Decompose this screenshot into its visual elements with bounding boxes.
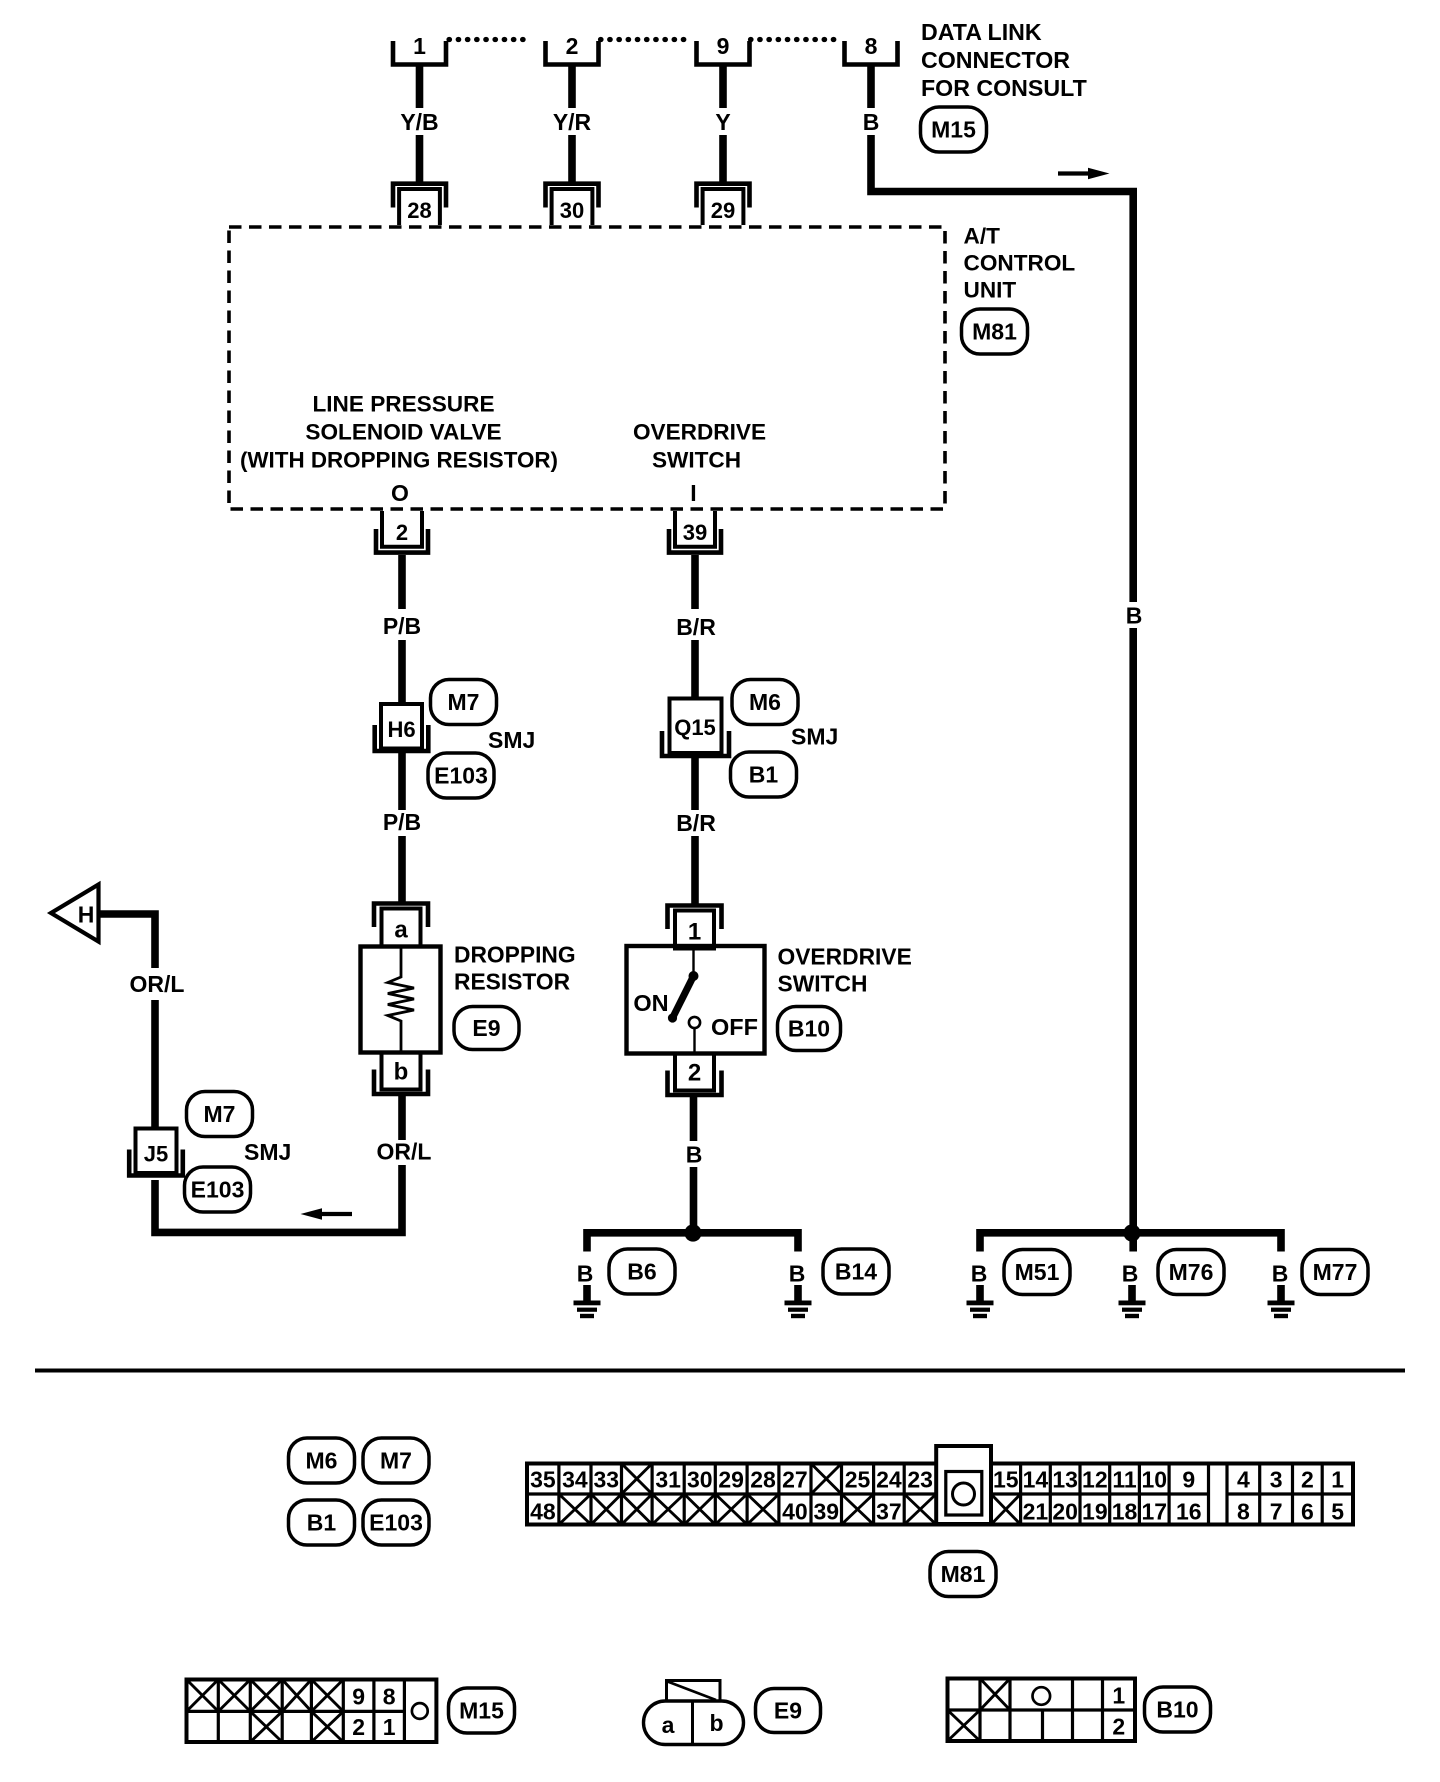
connector pin 9 of data link connector M15 bbox=[697, 33, 750, 65]
svg-text:2: 2 bbox=[566, 33, 579, 59]
connector ref M6 (legend) bbox=[289, 1438, 355, 1483]
connector face E9 bbox=[644, 1681, 744, 1745]
connector ref B14 bbox=[823, 1249, 889, 1294]
wire SMJ Q15 to B/R label bbox=[691, 758, 699, 810]
svg-text:Y/B: Y/B bbox=[400, 109, 438, 135]
svg-text:9: 9 bbox=[717, 33, 730, 59]
svg-text:8: 8 bbox=[1237, 1499, 1250, 1525]
svg-text:27: 27 bbox=[782, 1467, 808, 1493]
ground symbol M77 bbox=[1268, 1285, 1295, 1318]
text UNIT bbox=[964, 278, 1017, 303]
svg-text:UNIT: UNIT bbox=[964, 278, 1017, 303]
connector ref M7 (SMJ lower) bbox=[187, 1092, 253, 1137]
wire P/B to dropping resistor bbox=[398, 836, 406, 902]
svg-text:OVERDRIVE: OVERDRIVE bbox=[633, 420, 766, 445]
svg-text:P/B: P/B bbox=[383, 809, 421, 835]
wire label OR/L (left) bbox=[130, 971, 185, 997]
svg-text:CONTROL: CONTROL bbox=[964, 251, 1076, 276]
svg-text:1: 1 bbox=[688, 919, 701, 946]
connector ref E103 (legend) bbox=[363, 1500, 429, 1545]
svg-text:34: 34 bbox=[562, 1467, 588, 1493]
svg-text:B: B bbox=[1126, 603, 1143, 629]
svg-text:3: 3 bbox=[1270, 1467, 1283, 1493]
svg-text:H: H bbox=[78, 902, 95, 928]
svg-text:M6: M6 bbox=[749, 689, 781, 715]
svg-text:13: 13 bbox=[1052, 1467, 1078, 1493]
connector ref B6 bbox=[609, 1249, 675, 1294]
svg-text:B: B bbox=[1272, 1261, 1289, 1287]
svg-text:B/R: B/R bbox=[676, 614, 716, 640]
text SOLENOID VALVE bbox=[305, 420, 501, 445]
wire label B (pin 8) bbox=[863, 109, 880, 135]
svg-text:a: a bbox=[662, 1712, 675, 1738]
svg-text:37: 37 bbox=[876, 1499, 902, 1525]
svg-text:RESISTOR: RESISTOR bbox=[454, 969, 570, 995]
svg-text:8: 8 bbox=[865, 33, 878, 59]
dropping resistor E9 bbox=[361, 947, 441, 1053]
svg-text:4: 4 bbox=[1237, 1467, 1250, 1493]
svg-text:39: 39 bbox=[683, 520, 707, 545]
text DROPPING bbox=[454, 942, 576, 968]
wire pin8 to right bus bbox=[871, 135, 1133, 602]
wire B/R to SMJ Q15 bbox=[691, 640, 699, 698]
svg-text:ON: ON bbox=[633, 990, 668, 1016]
text OVERDRIVE bbox=[778, 944, 912, 970]
svg-text:1: 1 bbox=[383, 1714, 396, 1740]
svg-text:B: B bbox=[1122, 1261, 1139, 1287]
svg-text:30: 30 bbox=[687, 1467, 713, 1493]
svg-text:16: 16 bbox=[1176, 1499, 1202, 1525]
ground stub M76 bbox=[1129, 1233, 1137, 1252]
dropping resistor pin a bbox=[374, 904, 428, 947]
connector face M15 pin grid bbox=[187, 1680, 437, 1743]
svg-text:17: 17 bbox=[1141, 1499, 1167, 1525]
connector ref E9 (legend) bbox=[756, 1689, 821, 1733]
wire label Y bbox=[715, 109, 730, 135]
svg-text:B14: B14 bbox=[835, 1259, 877, 1285]
svg-text:10: 10 bbox=[1141, 1467, 1167, 1493]
svg-text:OR/L: OR/L bbox=[377, 1139, 432, 1165]
text LINE PRESSURE bbox=[312, 392, 494, 417]
overdrive switch pin 2 bbox=[668, 1054, 722, 1096]
wire SMJ H6 to P/B label bbox=[398, 751, 406, 810]
svg-text:12: 12 bbox=[1082, 1467, 1108, 1493]
wire J5 to OR/L label bbox=[151, 1000, 159, 1129]
svg-text:21: 21 bbox=[1023, 1499, 1049, 1525]
svg-text:20: 20 bbox=[1052, 1499, 1078, 1525]
flow arrow left bbox=[301, 1208, 353, 1219]
text SMJ (left) bbox=[488, 727, 535, 753]
svg-text:B1: B1 bbox=[307, 1510, 337, 1536]
svg-text:31: 31 bbox=[655, 1467, 681, 1493]
text CONNECTOR bbox=[921, 47, 1070, 73]
svg-text:B: B bbox=[577, 1261, 594, 1287]
svg-text:(WITH DROPPING RESISTOR): (WITH DROPPING RESISTOR) bbox=[240, 448, 558, 473]
svg-text:O: O bbox=[391, 480, 409, 506]
ground bus wire B6-B14 bbox=[587, 1233, 798, 1252]
connector pin 1 of data link connector M15 bbox=[393, 33, 446, 65]
svg-text:E103: E103 bbox=[434, 763, 488, 789]
svg-text:P/B: P/B bbox=[383, 613, 421, 639]
overdrive switch B10 bbox=[627, 946, 765, 1054]
svg-text:SOLENOID VALVE: SOLENOID VALVE bbox=[305, 420, 501, 445]
svg-text:B: B bbox=[686, 1142, 703, 1168]
svg-text:OR/L: OR/L bbox=[130, 971, 185, 997]
svg-text:29: 29 bbox=[711, 198, 735, 223]
svg-text:14: 14 bbox=[1023, 1467, 1049, 1493]
connector face B10 pin grid bbox=[948, 1679, 1136, 1742]
svg-text:30: 30 bbox=[560, 198, 584, 223]
SMJ connector Q15 bbox=[662, 699, 729, 757]
horizontal separator line bbox=[35, 1369, 1405, 1373]
svg-text:25: 25 bbox=[845, 1467, 871, 1493]
svg-text:M51: M51 bbox=[1015, 1259, 1060, 1285]
svg-text:A/T: A/T bbox=[964, 224, 1001, 249]
connector face M81 pin grid bbox=[527, 1446, 1353, 1525]
connector ref M15 (legend) bbox=[449, 1688, 515, 1733]
svg-text:15: 15 bbox=[993, 1467, 1019, 1493]
wire right bus lower segment bbox=[1129, 628, 1137, 1233]
svg-text:M77: M77 bbox=[1313, 1259, 1358, 1285]
svg-text:SWITCH: SWITCH bbox=[778, 971, 868, 997]
text DATA LINK bbox=[921, 19, 1042, 45]
svg-text:M6: M6 bbox=[306, 1448, 338, 1474]
svg-text:2: 2 bbox=[1301, 1467, 1314, 1493]
svg-text:Y: Y bbox=[715, 109, 730, 135]
wire OR/L down-left to J5 bbox=[155, 1165, 402, 1232]
svg-text:40: 40 bbox=[782, 1499, 808, 1525]
svg-text:M81: M81 bbox=[941, 1561, 986, 1587]
ground bus wire M51-M77 bbox=[980, 1233, 1281, 1252]
svg-text:1: 1 bbox=[1331, 1467, 1344, 1493]
connector ref M81 (A/T control unit) bbox=[962, 309, 1028, 354]
connector ref M7 (SMJ upper) bbox=[431, 680, 497, 725]
svg-text:Q15: Q15 bbox=[674, 715, 716, 740]
wire label P/B (upper) bbox=[383, 613, 421, 639]
wire B to ground junction bbox=[690, 1167, 698, 1233]
connector ref B10 (overdrive switch) bbox=[778, 1007, 841, 1051]
connector ref E103 (SMJ upper) bbox=[428, 753, 494, 798]
svg-text:OVERDRIVE: OVERDRIVE bbox=[778, 944, 912, 970]
wire label B (ground M77) bbox=[1272, 1261, 1289, 1287]
page connector H (to sheet H) bbox=[51, 885, 99, 942]
wire pin1 lower segment bbox=[416, 135, 424, 184]
dropping resistor pin b bbox=[374, 1053, 428, 1095]
svg-text:11: 11 bbox=[1112, 1467, 1137, 1493]
svg-text:CONNECTOR: CONNECTOR bbox=[921, 47, 1070, 73]
connector ref B1 (SMJ upper) bbox=[731, 752, 797, 797]
svg-text:29: 29 bbox=[718, 1467, 744, 1493]
svg-text:2: 2 bbox=[1112, 1714, 1125, 1740]
connector ref E103 (SMJ lower) bbox=[185, 1167, 251, 1212]
SMJ connector H6 bbox=[375, 704, 429, 751]
svg-text:b: b bbox=[709, 1710, 723, 1736]
svg-text:28: 28 bbox=[750, 1467, 776, 1493]
connector ref M15 (data link connector) bbox=[921, 107, 987, 152]
connector pin 28 of A/T control unit bbox=[393, 184, 446, 225]
wire label B/R (lower) bbox=[676, 810, 716, 836]
svg-text:8: 8 bbox=[383, 1684, 396, 1710]
text SMJ (bottom left) bbox=[244, 1139, 291, 1165]
svg-text:E9: E9 bbox=[774, 1698, 802, 1724]
wire label P/B (lower) bbox=[383, 809, 421, 835]
svg-text:1: 1 bbox=[413, 33, 426, 59]
wire label B (switch) bbox=[686, 1142, 703, 1168]
svg-text:M7: M7 bbox=[204, 1101, 236, 1127]
svg-text:DATA LINK: DATA LINK bbox=[921, 19, 1042, 45]
ground symbol B14 bbox=[785, 1285, 812, 1318]
text FOR CONSULT bbox=[921, 75, 1087, 101]
svg-text:2: 2 bbox=[396, 520, 408, 545]
svg-text:I: I bbox=[690, 480, 696, 506]
A/T control unit dashed box M81 bbox=[229, 227, 945, 509]
SMJ connector J5 bbox=[129, 1129, 183, 1176]
svg-text:LINE PRESSURE: LINE PRESSURE bbox=[312, 392, 494, 417]
connector pin 29 of A/T control unit bbox=[697, 184, 750, 225]
svg-text:B/R: B/R bbox=[676, 810, 716, 836]
svg-text:23: 23 bbox=[907, 1467, 933, 1493]
ground symbol M76 bbox=[1119, 1285, 1146, 1318]
connector ref B10 (legend) bbox=[1145, 1687, 1211, 1732]
pin letter O bbox=[391, 480, 409, 506]
connector ref M51 bbox=[1004, 1250, 1070, 1295]
svg-text:M15: M15 bbox=[459, 1698, 504, 1724]
text (WITH DROPPING RESISTOR) bbox=[240, 448, 558, 473]
text SWITCH (in box) bbox=[652, 448, 741, 473]
junction node (switch ground) bbox=[684, 1224, 701, 1241]
wire P/B to SMJ H6 bbox=[398, 640, 406, 704]
svg-text:E103: E103 bbox=[369, 1510, 423, 1536]
wire label B (ground B6) bbox=[577, 1261, 594, 1287]
svg-text:SMJ: SMJ bbox=[488, 727, 535, 753]
wire label B (right bus) bbox=[1126, 603, 1143, 629]
dotted connector outline pin2-pin9 bbox=[601, 37, 685, 42]
connector ref M76 bbox=[1158, 1250, 1224, 1295]
svg-text:33: 33 bbox=[593, 1467, 619, 1493]
svg-text:H6: H6 bbox=[387, 717, 415, 742]
svg-text:DROPPING: DROPPING bbox=[454, 942, 576, 968]
wire pin9 upper segment bbox=[719, 64, 727, 108]
connector ref M81 (legend) bbox=[930, 1552, 996, 1597]
svg-text:B10: B10 bbox=[1156, 1697, 1198, 1723]
overdrive switch pin 1 bbox=[668, 906, 722, 949]
connector pin 30 of A/T control unit bbox=[546, 184, 599, 225]
svg-text:7: 7 bbox=[1270, 1499, 1283, 1525]
text SMJ (right) bbox=[791, 724, 838, 750]
pin letter I bbox=[690, 480, 696, 506]
svg-text:B6: B6 bbox=[627, 1259, 656, 1285]
connector pin 2 of A/T control unit bbox=[376, 511, 428, 553]
svg-text:B1: B1 bbox=[749, 762, 779, 788]
svg-text:OFF: OFF bbox=[711, 1014, 758, 1040]
svg-text:18: 18 bbox=[1112, 1499, 1138, 1525]
svg-text:M15: M15 bbox=[931, 117, 976, 143]
wire pin9 lower segment bbox=[719, 135, 727, 184]
svg-text:6: 6 bbox=[1301, 1499, 1314, 1525]
svg-text:SWITCH: SWITCH bbox=[652, 448, 741, 473]
wire label Y/B bbox=[400, 109, 438, 135]
wire label OR/L (right) bbox=[377, 1139, 432, 1165]
ground symbol B6 bbox=[574, 1285, 601, 1318]
svg-text:M81: M81 bbox=[972, 319, 1017, 345]
svg-text:E9: E9 bbox=[472, 1015, 500, 1041]
svg-text:9: 9 bbox=[352, 1684, 365, 1710]
dotted connector outline pin1-pin2 bbox=[449, 37, 532, 42]
wire resistor b to OR/L label bbox=[398, 1094, 406, 1140]
wire label B (ground M51) bbox=[971, 1261, 988, 1287]
text CONTROL bbox=[964, 251, 1076, 276]
junction node (right ground bus) bbox=[1123, 1224, 1140, 1241]
svg-text:B: B bbox=[863, 109, 880, 135]
wire pin1 upper segment bbox=[416, 64, 424, 108]
svg-text:1: 1 bbox=[1112, 1683, 1125, 1709]
svg-text:24: 24 bbox=[876, 1467, 902, 1493]
wire label B (ground B14) bbox=[789, 1261, 806, 1287]
svg-text:28: 28 bbox=[407, 198, 431, 223]
svg-text:2: 2 bbox=[688, 1060, 701, 1087]
connector pin 8 of data link connector M15 bbox=[845, 33, 898, 65]
text RESISTOR bbox=[454, 969, 570, 995]
wire label Y/R bbox=[553, 109, 592, 135]
svg-text:M7: M7 bbox=[380, 1448, 412, 1474]
connector ref E9 (dropping resistor) bbox=[454, 1007, 519, 1050]
svg-text:9: 9 bbox=[1182, 1467, 1195, 1493]
text A/T bbox=[964, 224, 1001, 249]
svg-text:J5: J5 bbox=[144, 1142, 168, 1167]
svg-text:48: 48 bbox=[530, 1499, 556, 1525]
wire switch pin2 to B label bbox=[690, 1095, 698, 1141]
wire pin8 upper segment bbox=[867, 64, 875, 108]
connector ref M6 (SMJ upper) bbox=[732, 680, 798, 725]
wire label B/R (upper) bbox=[676, 614, 716, 640]
svg-text:M76: M76 bbox=[1169, 1259, 1214, 1285]
svg-text:SMJ: SMJ bbox=[244, 1139, 291, 1165]
svg-text:E103: E103 bbox=[191, 1177, 245, 1203]
connector ref M7 (legend) bbox=[363, 1438, 429, 1483]
svg-text:SMJ: SMJ bbox=[791, 724, 838, 750]
svg-text:2: 2 bbox=[352, 1714, 365, 1740]
wire pin39 to B/R label bbox=[691, 555, 699, 609]
flow arrow right bbox=[1058, 168, 1110, 179]
wire OR/L to page connector H bbox=[100, 914, 155, 968]
connector pin 2 of data link connector M15 bbox=[546, 33, 599, 65]
wire label B (ground M76) bbox=[1122, 1261, 1139, 1287]
dotted connector outline pin9-pin8 bbox=[751, 37, 836, 42]
svg-text:M7: M7 bbox=[448, 689, 480, 715]
svg-text:19: 19 bbox=[1082, 1499, 1108, 1525]
svg-text:5: 5 bbox=[1331, 1499, 1344, 1525]
svg-text:B: B bbox=[971, 1261, 988, 1287]
wire B/R to overdrive switch bbox=[691, 836, 699, 904]
text SWITCH bbox=[778, 971, 868, 997]
text OVERDRIVE (in box) bbox=[633, 420, 766, 445]
ground symbol M51 bbox=[967, 1285, 994, 1318]
connector pin 39 of A/T control unit bbox=[669, 511, 721, 553]
wire pin2 lower segment bbox=[568, 135, 576, 184]
svg-text:39: 39 bbox=[813, 1499, 839, 1525]
svg-text:35: 35 bbox=[530, 1467, 556, 1493]
svg-text:Y/R: Y/R bbox=[553, 109, 592, 135]
connector ref M77 bbox=[1302, 1250, 1368, 1295]
connector ref B1 (legend) bbox=[289, 1500, 355, 1545]
svg-text:B: B bbox=[789, 1261, 806, 1287]
svg-text:a: a bbox=[394, 917, 408, 944]
wire pin2 to P/B label bbox=[398, 555, 406, 609]
wire pin2 upper segment bbox=[568, 64, 576, 108]
svg-text:FOR CONSULT: FOR CONSULT bbox=[921, 75, 1087, 101]
svg-text:B10: B10 bbox=[788, 1016, 830, 1042]
svg-text:b: b bbox=[394, 1059, 409, 1086]
